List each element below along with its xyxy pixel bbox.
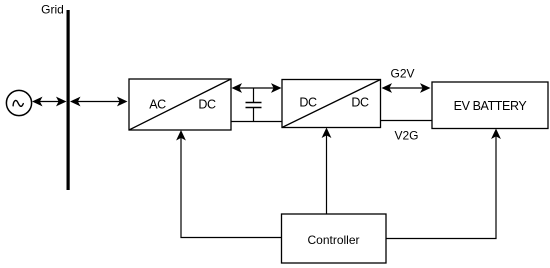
controller U3 box	[282, 214, 387, 263]
arrowhead at source	[32, 97, 43, 107]
converter U2 DC/DC box	[282, 80, 381, 128]
svg-text:EV BATTERY: EV BATTERY	[454, 99, 528, 113]
EV battery B1 box	[432, 82, 548, 129]
svg-text:AC: AC	[149, 98, 166, 112]
arrowhead at U1 bottom	[176, 130, 186, 141]
control wire to battery	[386, 136, 496, 239]
arrowhead at bus right	[70, 97, 81, 107]
arrowhead at U2 left	[271, 83, 282, 93]
V2G wire	[381, 120, 433, 122]
AC source G1	[6, 90, 31, 115]
DC-link top wire (bidirectional)	[238, 87, 275, 89]
svg-text:Grid: Grid	[41, 3, 64, 17]
capacitor C1 bottom lead	[253, 108, 255, 122]
capacitor C1 top lead	[253, 88, 255, 102]
svg-text:G2V: G2V	[390, 67, 414, 81]
control wire to U2	[326, 135, 328, 215]
wire bus to AC-DC converter (bidirectional)	[77, 101, 120, 103]
capacitor C1 top plate	[246, 102, 262, 104]
grid bus bar	[67, 10, 70, 190]
arrowhead at battery left	[420, 83, 431, 93]
arrowhead at U1 right	[232, 83, 243, 93]
svg-text:Controller: Controller	[307, 233, 359, 247]
G2V wire (bidirectional)	[388, 87, 424, 89]
svg-text:DC: DC	[198, 98, 216, 112]
converter U1 AC/DC box	[129, 79, 231, 130]
arrowhead at AC-DC converter left	[117, 97, 128, 107]
svg-text:V2G: V2G	[394, 129, 418, 143]
svg-text:DC: DC	[351, 96, 369, 110]
svg-text:DC: DC	[299, 96, 317, 110]
wire source to bus (bidirectional)	[39, 101, 60, 103]
arrowhead at U2 bottom	[322, 128, 332, 139]
capacitor C1 bottom plate	[246, 107, 262, 109]
control wire to U1	[181, 137, 282, 238]
DC-link bottom wire	[231, 121, 282, 123]
converter U2 diagonal	[282, 80, 381, 128]
arrowhead at U2 right	[382, 83, 393, 93]
arrowhead at battery bottom	[491, 129, 501, 140]
AC source sine symbol	[13, 100, 23, 106]
converter U1 diagonal	[129, 79, 231, 130]
arrowhead at bus left	[56, 97, 67, 107]
